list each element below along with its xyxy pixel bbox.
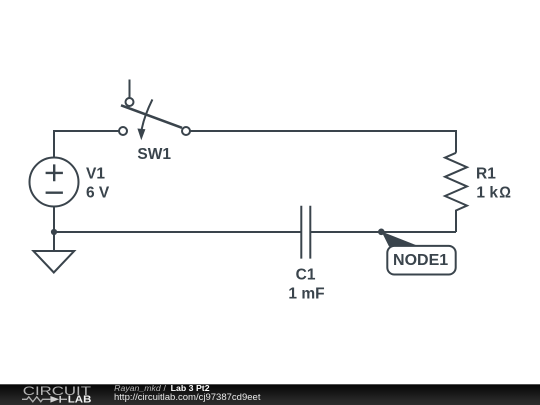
logo wire with resistor squiggle [22, 397, 67, 402]
node dot NODE1 [378, 229, 385, 236]
V1 minus sign [46, 191, 63, 193]
svg-text:6 V: 6 V [86, 185, 110, 202]
ground [33, 251, 74, 273]
V1 plus sign [46, 164, 63, 181]
svg-text:NODE1: NODE1 [393, 252, 448, 269]
svg-text:R1: R1 [476, 165, 496, 182]
svg-text:LAB: LAB [68, 395, 92, 405]
wire V1 bottom to ground [53, 207, 55, 251]
switch SW1 right terminal circle [182, 127, 190, 135]
wire top-right from switch right terminal to resistor [190, 131, 456, 153]
switch SW1 top pin wire [129, 80, 131, 98]
wire top-left from V1 to switch left terminal [54, 131, 119, 157]
resistor R1 [445, 153, 467, 232]
svg-text:V1: V1 [86, 165, 105, 182]
logo diode cathode bar [59, 396, 61, 403]
NODE1 flag pointer [382, 232, 418, 247]
voltage source V1 circle [30, 158, 79, 207]
logo diode [50, 396, 59, 403]
svg-text:SW1: SW1 [137, 146, 171, 163]
switch SW1 top terminal circle [126, 98, 134, 106]
svg-text:1 kΩ: 1 kΩ [476, 184, 511, 201]
junction dot at V1/ground node [51, 229, 57, 235]
svg-text:C1: C1 [296, 267, 316, 284]
svg-text:1 mF: 1 mF [288, 286, 324, 303]
switch SW1 arrow head [137, 129, 145, 141]
switch SW1 left terminal circle [119, 127, 127, 135]
footer bar [0, 384, 540, 405]
switch SW1 actuator arc [142, 99, 153, 129]
wire bottom-right from resistor to capacitor right plate [310, 231, 456, 233]
wire bottom-left from V1 junction to capacitor left plate [54, 231, 301, 233]
svg-text:http://circuitlab.com/cj97387c: http://circuitlab.com/cj97387cd9eet [114, 392, 261, 403]
capacitor C1 plates [301, 206, 310, 259]
switch SW1 blade [121, 105, 182, 128]
NODE1 flag box [387, 246, 455, 275]
